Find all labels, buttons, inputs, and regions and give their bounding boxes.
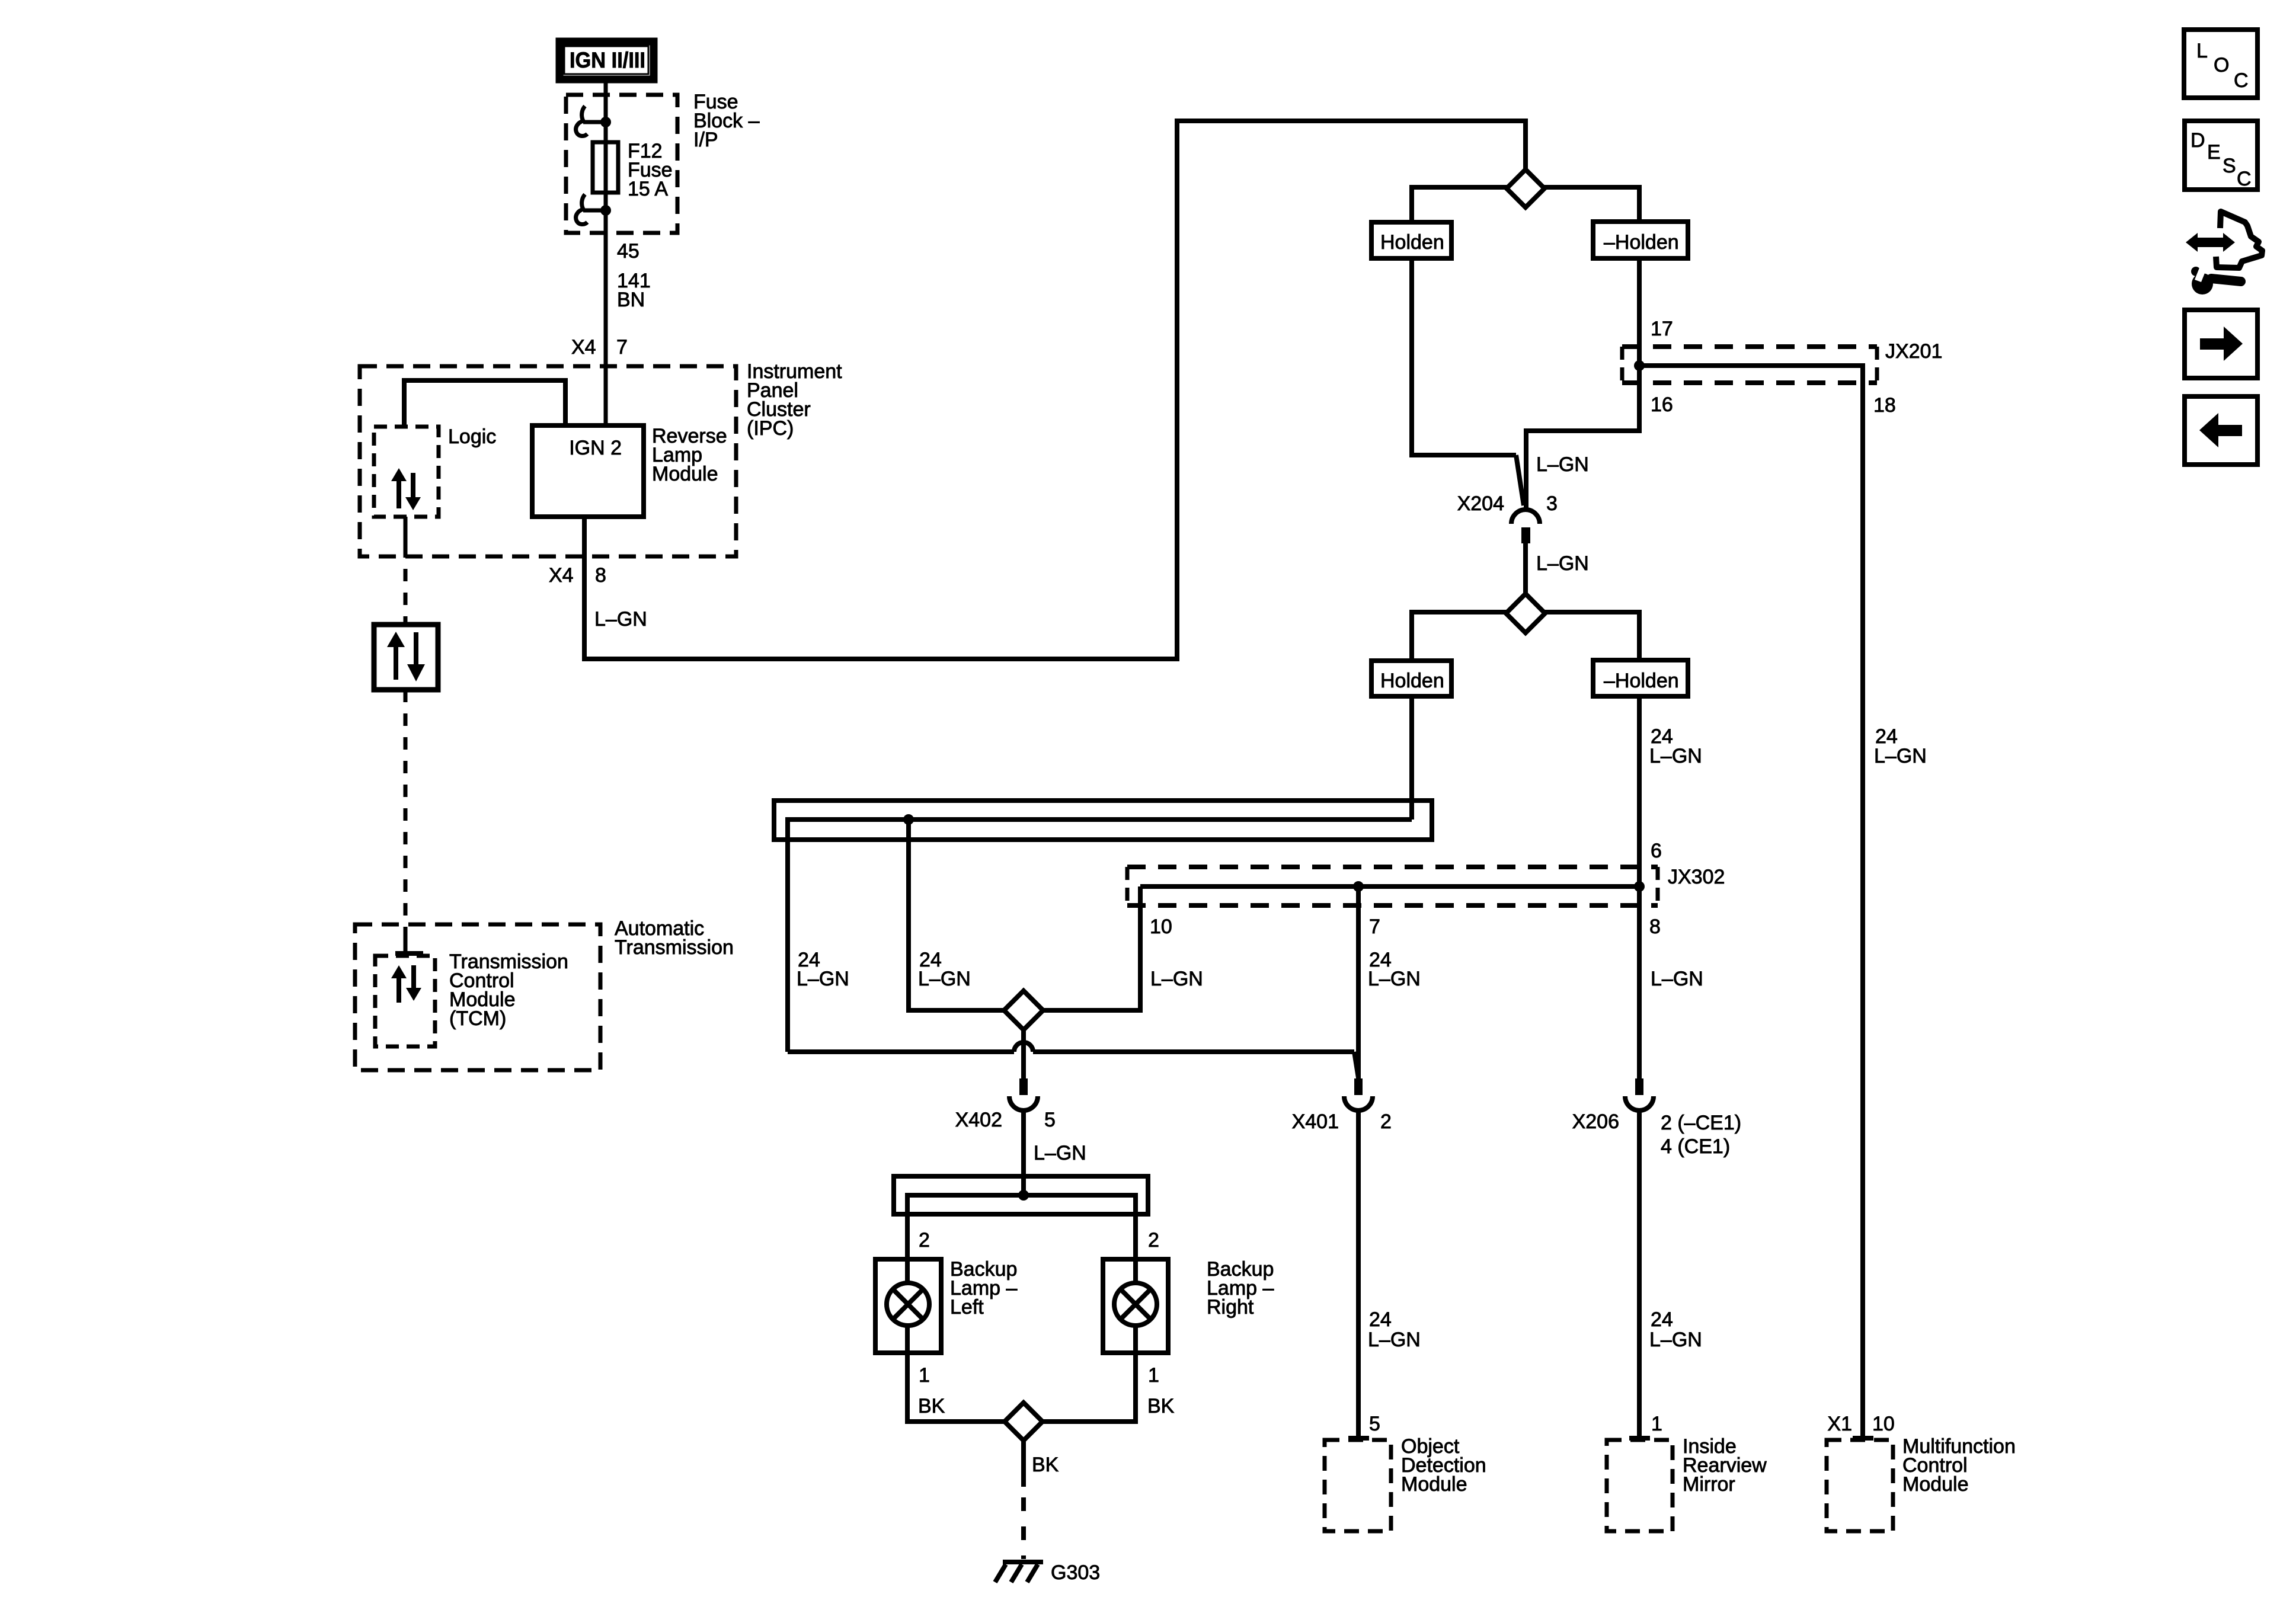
- junction dot JX201: [1634, 360, 1645, 371]
- TCM up/down arrows: [391, 965, 421, 1003]
- svg-text:10: 10: [1150, 916, 1172, 938]
- junction dot top of fuse: [600, 117, 611, 127]
- wire label 24 L-GN ODM: [1368, 1308, 1421, 1351]
- wire label 24 L-GN pin7: [1368, 949, 1421, 990]
- IGN2 module box: [532, 425, 644, 517]
- connector X4 pin 8 labels: [549, 564, 606, 587]
- svg-text:X1: X1: [1827, 1413, 1852, 1435]
- svg-text:L–GN: L–GN: [1649, 745, 1702, 767]
- svg-text:2: 2: [919, 1229, 930, 1251]
- wire diamond3 to ground: [1021, 1441, 1026, 1559]
- svg-text:7: 7: [1369, 916, 1380, 938]
- Inside Rearview Mirror label: [1683, 1435, 1767, 1496]
- svg-text:Holden: Holden: [1380, 670, 1444, 692]
- wire -Holden1 down through JX201 to X204: [1526, 258, 1639, 508]
- svg-text:C: C: [2237, 168, 2252, 190]
- svg-text:8: 8: [1649, 916, 1661, 938]
- svg-text:X402: X402: [955, 1109, 1002, 1131]
- svg-text:4 (CE1): 4 (CE1): [1661, 1135, 1730, 1158]
- icon next-page arrow box: [2185, 310, 2257, 378]
- svg-text:L–GN: L–GN: [1651, 968, 1703, 990]
- svg-text:2: 2: [1380, 1110, 1392, 1133]
- svg-text:IGN II/III: IGN II/III: [570, 48, 645, 72]
- junction dot JX302 pin7: [1353, 881, 1364, 892]
- in-line connector X401: [1344, 1078, 1373, 1110]
- junction block JX302 dashed band: [1127, 867, 1658, 905]
- svg-text:I/P: I/P: [693, 129, 718, 151]
- svg-text:5: 5: [1369, 1413, 1380, 1435]
- icon LOC box: [2184, 30, 2257, 98]
- wire T-bar IRM: [1629, 1436, 1650, 1441]
- svg-text:Right: Right: [1207, 1296, 1254, 1318]
- svg-text:45: 45: [617, 240, 639, 263]
- svg-text:L–GN: L–GN: [1368, 968, 1421, 990]
- wire diamond2 to -Holden2: [1543, 612, 1639, 660]
- wire label 24 L-GN trunk left: [797, 949, 849, 990]
- wire T-bar ODM: [1348, 1436, 1369, 1441]
- backup lamp left box: [875, 1259, 941, 1353]
- svg-text:L–GN: L–GN: [1034, 1142, 1086, 1164]
- svg-text:E: E: [2207, 141, 2221, 164]
- svg-text:Logic: Logic: [448, 425, 496, 448]
- wire JX302 inner: [1140, 884, 1639, 889]
- svg-text:O: O: [2214, 54, 2229, 76]
- backup lamp right bulb: [1114, 1283, 1157, 1326]
- wire X204 to diamond2: [1523, 543, 1528, 596]
- svg-text:Module: Module: [1902, 1473, 1969, 1496]
- svg-text:Mirror: Mirror: [1683, 1473, 1735, 1496]
- svg-text:JX302: JX302: [1668, 866, 1725, 888]
- wire left lamp to diamond3: [907, 1326, 1007, 1422]
- svg-text:BK: BK: [918, 1395, 945, 1417]
- wire diamond2 to Holden2: [1412, 612, 1508, 661]
- Object Detection Module label: [1401, 1435, 1486, 1496]
- svg-text:L–GN: L–GN: [1150, 968, 1203, 990]
- wire Holden2 down to trunk: [1409, 696, 1414, 820]
- wire X402 to lamp trunk: [1021, 1112, 1026, 1195]
- svg-text:L–GN: L–GN: [1536, 552, 1589, 575]
- arrow box up/down arrows: [387, 632, 425, 681]
- wire X206 to inside rearview mirror: [1637, 1112, 1642, 1438]
- slanted wire into X204: [1516, 455, 1524, 505]
- svg-text:X204: X204: [1457, 492, 1504, 515]
- svg-text:1: 1: [1148, 1364, 1159, 1387]
- wire JX302 pin10 to diamond2b: [1041, 886, 1140, 1010]
- svg-text:3: 3: [1546, 492, 1558, 515]
- Reverse Lamp Module label: [652, 425, 727, 485]
- svg-text:2 (–CE1): 2 (–CE1): [1661, 1112, 1741, 1134]
- svg-text:–Holden: –Holden: [1604, 231, 1679, 254]
- TCM label: [449, 950, 568, 1030]
- svg-text:X401: X401: [1292, 1110, 1339, 1133]
- wire from IGN II/III to fuse: [604, 83, 608, 428]
- diamond junction 2: [1506, 594, 1545, 633]
- junction block JX201 dashed band: [1622, 347, 1877, 383]
- svg-text:Left: Left: [950, 1296, 984, 1318]
- wire trunk2 inner: [907, 1195, 1136, 1283]
- ground G303 symbol: [995, 1562, 1043, 1582]
- svg-text:(IPC): (IPC): [747, 417, 794, 440]
- wire horizontal to X401 with hop: [788, 1042, 1358, 1078]
- -Holden box 1: [1593, 222, 1688, 258]
- junction dot trunk2: [1018, 1190, 1029, 1201]
- in-line connector X204: [1511, 510, 1540, 543]
- Backup Lamp Right label: [1207, 1258, 1274, 1318]
- junction dot trunk1: [903, 814, 914, 825]
- wire label 141 BN: [617, 270, 651, 311]
- wire trunk1 branch to diamond2b: [909, 820, 1006, 1010]
- logic up/down arrows: [391, 468, 421, 510]
- svg-text:24: 24: [1369, 1308, 1392, 1331]
- svg-text:Holden: Holden: [1380, 231, 1444, 254]
- icon tool double arrow: [2186, 233, 2235, 252]
- Multifunction Control Module label: [1902, 1435, 2016, 1496]
- diamond junction 2b: [1004, 991, 1043, 1030]
- svg-text:1: 1: [919, 1364, 930, 1387]
- svg-text:2: 2: [1148, 1229, 1159, 1251]
- svg-text:JX201: JX201: [1885, 340, 1942, 363]
- svg-text:X4: X4: [571, 336, 596, 359]
- backup lamp left bulb: [887, 1283, 929, 1326]
- svg-text:8: 8: [595, 564, 606, 587]
- svg-text:6: 6: [1651, 840, 1662, 862]
- wire X401 to object detection module: [1356, 1112, 1361, 1438]
- wire T-bar MCM: [1853, 1436, 1873, 1441]
- svg-text:L–GN: L–GN: [1536, 453, 1589, 476]
- wire right lamp to diamond3: [1040, 1326, 1136, 1422]
- junction dot JX302 pin8: [1634, 881, 1645, 892]
- fuse F12 15A body: [593, 142, 618, 193]
- wire IGN2 to Logic: [404, 380, 565, 428]
- in-line connector X206: [1625, 1078, 1654, 1110]
- wire diamond1 to -Holden: [1542, 187, 1639, 222]
- svg-text:1: 1: [1651, 1413, 1662, 1435]
- wire diamond1 to Holden: [1412, 187, 1509, 222]
- svg-text:G303: G303: [1051, 1561, 1100, 1584]
- inside rearview mirror dashed box: [1607, 1440, 1673, 1531]
- wire diamond2b to X402: [1021, 1030, 1026, 1078]
- automatic transmission dashed box: [355, 924, 600, 1070]
- fuse F12 label: [628, 140, 673, 200]
- diamond junction 1: [1507, 169, 1544, 207]
- TCM dashed box: [375, 956, 435, 1046]
- svg-text:Module: Module: [652, 463, 718, 485]
- svg-text:5: 5: [1044, 1109, 1056, 1131]
- IPC dashed box: [360, 366, 736, 556]
- svg-text:X206: X206: [1572, 1110, 1619, 1133]
- svg-text:16: 16: [1651, 393, 1673, 416]
- -Holden box 2: [1593, 660, 1688, 696]
- icon tool hook outline: [2216, 212, 2262, 268]
- Holden box 1: [1371, 222, 1451, 258]
- Automatic Transmission label: [615, 917, 734, 959]
- fuse clip bottom: [576, 194, 606, 225]
- harness trunk rectangle 2: [894, 1176, 1148, 1214]
- wire JX302 pin7 down to X401: [1356, 886, 1361, 1078]
- logic dashed box: [374, 427, 439, 517]
- connector X4 pin 7 labels: [571, 336, 628, 359]
- svg-text:24: 24: [1651, 1308, 1673, 1331]
- svg-text:IGN 2: IGN 2: [569, 437, 622, 459]
- power box IGN II/III: [559, 41, 654, 79]
- svg-text:–Holden: –Holden: [1604, 670, 1679, 692]
- svg-text:10: 10: [1872, 1413, 1895, 1435]
- wire label 24 L-GN right riser: [1874, 725, 1927, 767]
- fuse clip top: [576, 106, 606, 136]
- wire label 24 L-GN trunk branch: [918, 949, 971, 990]
- dashed wire logic to TCM: [404, 517, 408, 953]
- svg-text:C: C: [2234, 69, 2249, 92]
- svg-text:L–GN: L–GN: [918, 968, 971, 990]
- wire trunk1 inner: [788, 820, 1412, 1052]
- svg-text:7: 7: [616, 336, 628, 359]
- svg-text:L–GN: L–GN: [1368, 1329, 1421, 1351]
- fuse block I/P dashed box: [566, 95, 677, 233]
- wire IGN2 output to right riser: [584, 121, 1526, 659]
- icon DESC box: [2185, 121, 2257, 190]
- Backup Lamp Left label: [950, 1258, 1017, 1318]
- backup lamp right box: [1103, 1259, 1168, 1353]
- svg-text:X4: X4: [549, 564, 574, 587]
- svg-text:S: S: [2223, 155, 2236, 177]
- fuse block label: [693, 91, 760, 151]
- wire JX201 to multifunction control module riser: [1639, 366, 1863, 1437]
- harness trunk rectangle 1: [774, 801, 1432, 840]
- wire label 24 L-GN IRM: [1649, 1308, 1702, 1351]
- svg-text:L: L: [2196, 40, 2208, 62]
- svg-text:18: 18: [1873, 394, 1896, 417]
- wire T-bar at TCM: [395, 951, 423, 956]
- gear selector arrow box: [374, 625, 438, 690]
- svg-text:BN: BN: [617, 289, 645, 311]
- svg-text:Module: Module: [1401, 1473, 1467, 1496]
- Holden box 2: [1371, 661, 1451, 696]
- multifunction control module dashed box: [1827, 1440, 1893, 1531]
- svg-text:BK: BK: [1147, 1395, 1175, 1417]
- connector X401 pin 2 labels: [1292, 1110, 1392, 1133]
- svg-text:L–GN: L–GN: [1649, 1329, 1702, 1351]
- svg-text:L–GN: L–GN: [1874, 745, 1927, 767]
- svg-text:15 A: 15 A: [628, 178, 668, 200]
- svg-text:L–GN: L–GN: [797, 968, 849, 990]
- IPC label: [747, 360, 842, 440]
- icon prev-page arrow box: [2185, 396, 2257, 465]
- junction dot bottom of fuse: [600, 205, 611, 216]
- wire Holden1 down to X204: [1412, 258, 1516, 455]
- svg-text:(TCM): (TCM): [449, 1007, 506, 1030]
- wire label 24 L-GN: [1649, 725, 1702, 767]
- connector X402 pin 5 labels: [955, 1109, 1056, 1131]
- svg-text:D: D: [2191, 129, 2205, 152]
- connector X1 pin 10 labels: [1827, 1413, 1894, 1435]
- connector X204 pin 3 labels: [1457, 492, 1558, 515]
- wire -Holden2 down through JX302 to X206: [1637, 696, 1642, 1078]
- svg-text:BK: BK: [1032, 1454, 1059, 1476]
- svg-text:17: 17: [1651, 318, 1673, 340]
- object detection module dashed box: [1325, 1440, 1391, 1531]
- in-line connector X402: [1009, 1078, 1038, 1110]
- icon tool wrench: [2191, 267, 2241, 295]
- connector X206 pin labels: [1572, 1110, 1741, 1158]
- diamond junction 3: [1005, 1403, 1043, 1441]
- svg-text:L–GN: L–GN: [594, 608, 647, 630]
- svg-text:Transmission: Transmission: [615, 936, 734, 959]
